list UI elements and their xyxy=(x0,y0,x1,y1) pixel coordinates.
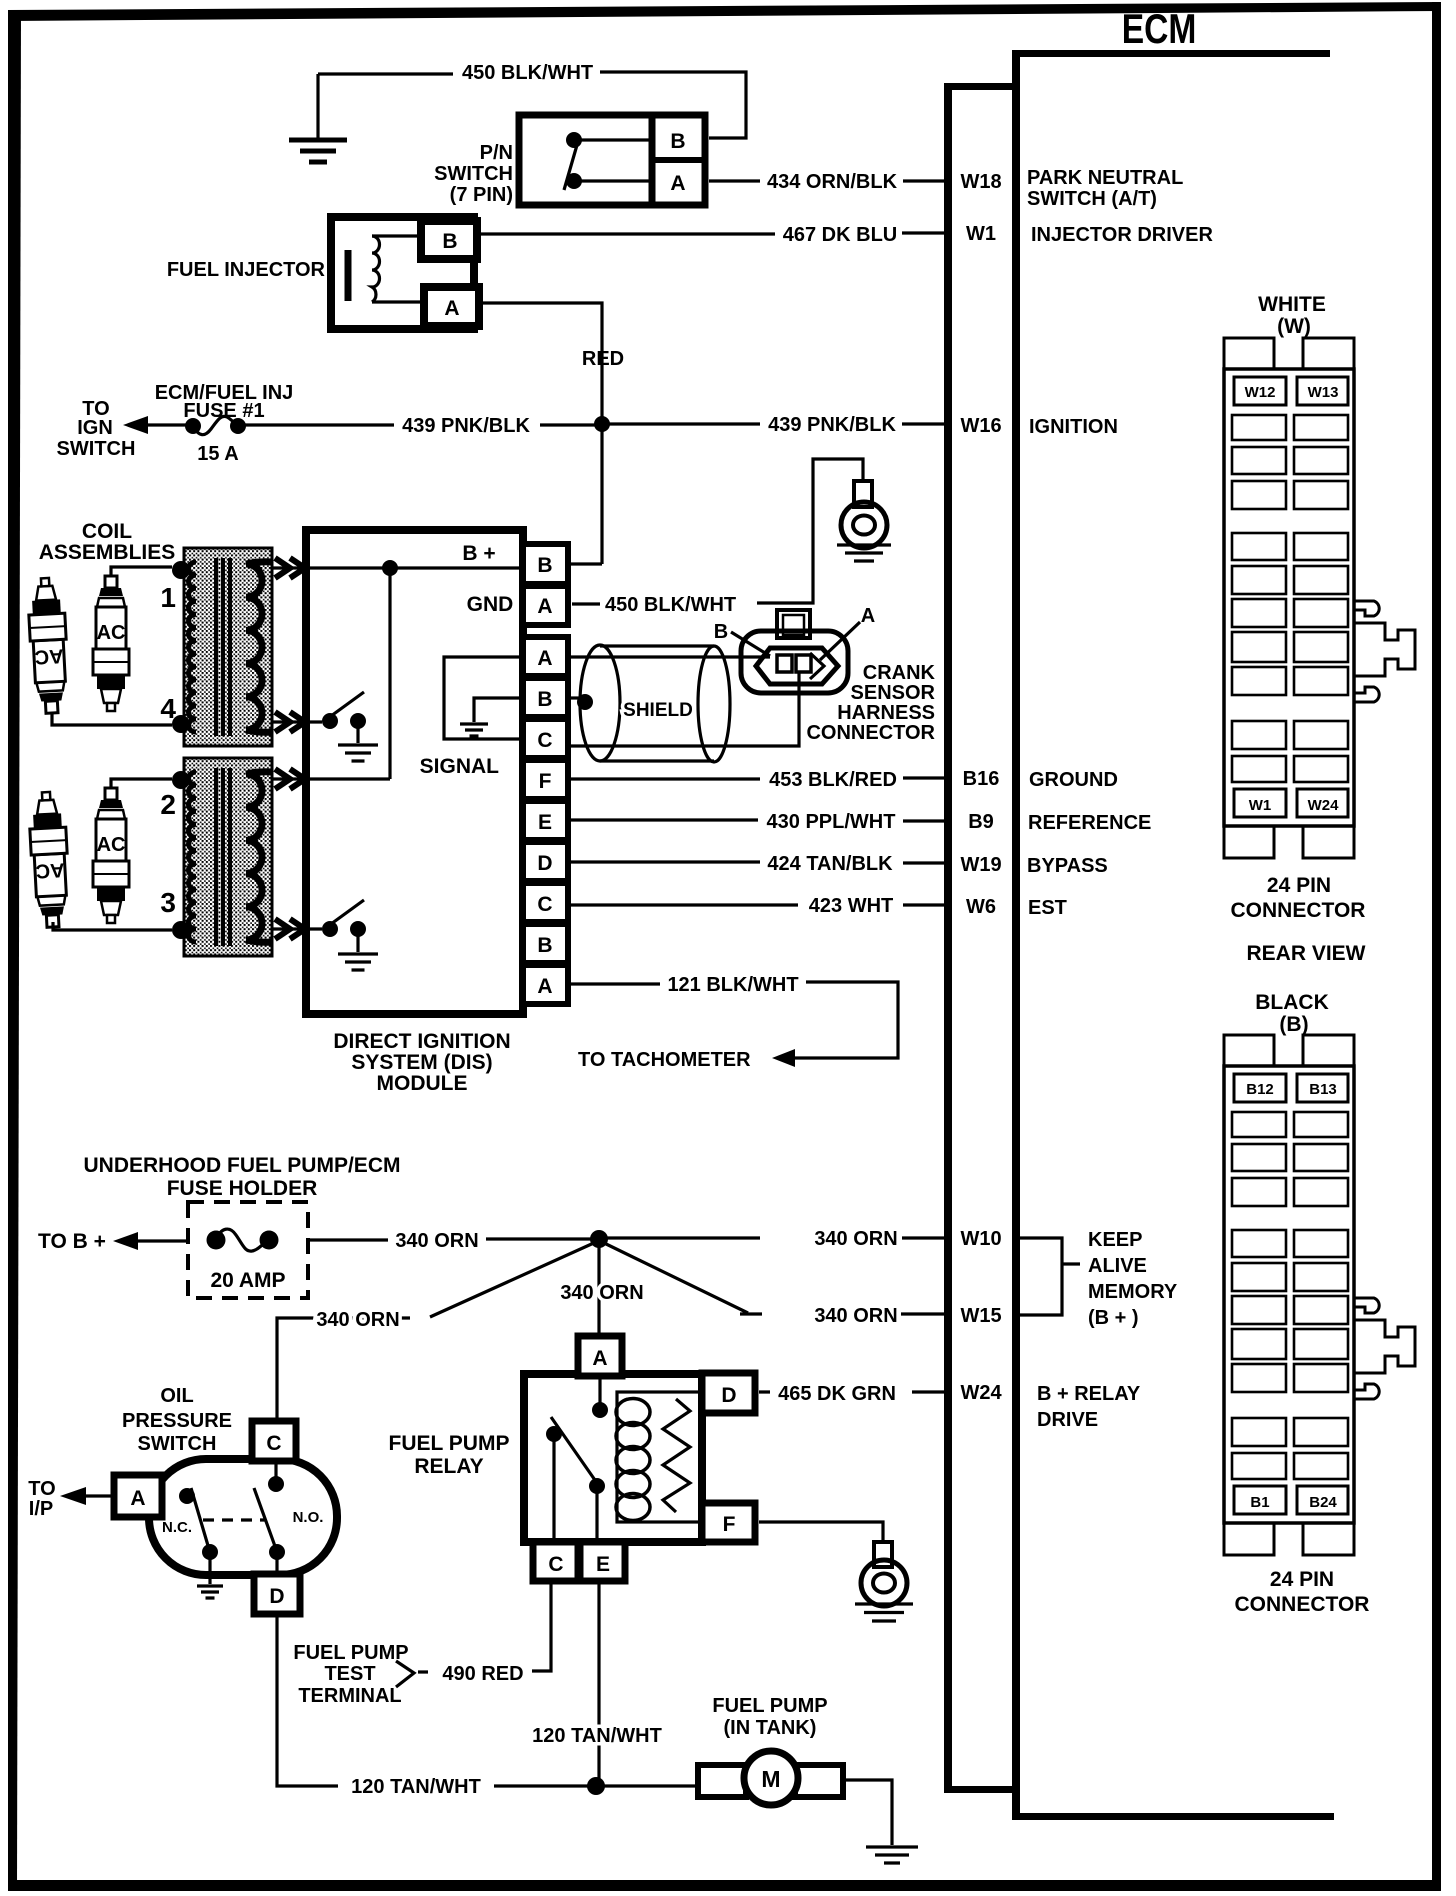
wire DIS A to crank connector xyxy=(568,655,770,658)
svg-text:24 PIN: 24 PIN xyxy=(1267,874,1331,897)
DIS pin A0 xyxy=(523,637,568,676)
wire 120 TAN/WHT from oil switch D xyxy=(277,1614,700,1798)
svg-text:340 ORN: 340 ORN xyxy=(814,1305,897,1327)
svg-text:A: A xyxy=(861,605,875,627)
DIS pin B1 xyxy=(523,678,568,717)
wire 424 TAN/BLK xyxy=(568,853,944,875)
wire plug3 to coil2 xyxy=(53,922,172,930)
svg-text:BYPASS: BYPASS xyxy=(1027,855,1108,877)
svg-text:B13: B13 xyxy=(1309,1081,1337,1098)
svg-text:(IN TANK): (IN TANK) xyxy=(724,1717,817,1739)
wire pump to ground xyxy=(843,1780,892,1845)
ECM U1 (Engine Control Module) xyxy=(1012,7,1334,1820)
svg-text:WHITE: WHITE xyxy=(1258,293,1326,316)
svg-text:1: 1 xyxy=(160,582,176,613)
svg-text:TERMINAL: TERMINAL xyxy=(298,1685,401,1707)
DIS pin E4 xyxy=(523,801,568,840)
svg-text:B16: B16 xyxy=(963,768,1000,790)
wire 450 BLK/WHT to crank ground xyxy=(572,459,863,616)
svg-text:(B): (B) xyxy=(1279,1013,1308,1036)
svg-text:RELAY: RELAY xyxy=(414,1455,483,1478)
svg-text:W18: W18 xyxy=(960,171,1001,193)
DIS pin D5 xyxy=(523,842,568,881)
svg-text:W1: W1 xyxy=(1249,797,1272,814)
switch DIS coil1 driver xyxy=(322,692,378,761)
svg-text:C: C xyxy=(537,729,552,752)
svg-text:B12: B12 xyxy=(1246,1081,1274,1098)
svg-text:340 ORN: 340 ORN xyxy=(814,1228,897,1250)
svg-text:A: A xyxy=(670,172,685,195)
wire coil1 primary to DIS switch (arrows) xyxy=(272,712,322,732)
svg-text:B: B xyxy=(442,230,457,253)
wire RED xyxy=(482,303,624,421)
oil pressure switch S2 xyxy=(114,1385,337,1614)
wire 340 ORN main feed xyxy=(308,1228,944,1252)
svg-text:F: F xyxy=(539,770,552,793)
svg-text:340 ORN: 340 ORN xyxy=(560,1282,643,1304)
svg-text:ASSEMBLIES: ASSEMBLIES xyxy=(39,541,176,564)
svg-text:D: D xyxy=(537,852,552,875)
svg-text:B: B xyxy=(537,688,552,711)
svg-text:CONNECTOR: CONNECTOR xyxy=(806,722,935,744)
svg-text:B24: B24 xyxy=(1309,1494,1337,1511)
svg-text:DIRECT IGNITION: DIRECT IGNITION xyxy=(333,1030,510,1053)
svg-text:A: A xyxy=(537,595,552,618)
svg-text:PARK NEUTRAL: PARK NEUTRAL xyxy=(1027,167,1183,189)
DIS module U2 DIRECT IGNITION SYSTEM xyxy=(306,530,523,1095)
svg-text:CRANK: CRANK xyxy=(863,662,936,684)
wire 423 WHT xyxy=(568,895,944,917)
svg-text:MEMORY: MEMORY xyxy=(1088,1281,1178,1303)
fuel pump M1 (IN TANK) xyxy=(698,1695,843,1805)
fuse F1 ECM/FUEL INJ FUSE #1 15A xyxy=(155,382,294,465)
wire 453 BLK/RED xyxy=(568,769,944,791)
svg-text:439 PNK/BLK: 439 PNK/BLK xyxy=(768,414,896,436)
svg-text:W10: W10 xyxy=(960,1228,1001,1250)
fuel pump relay K1 xyxy=(389,1336,755,1581)
label TO I/P xyxy=(28,1478,114,1520)
svg-text:340 ORN: 340 ORN xyxy=(316,1309,399,1331)
svg-text:423 WHT: 423 WHT xyxy=(809,895,893,917)
svg-text:N.O.: N.O. xyxy=(293,1509,324,1526)
svg-text:2: 2 xyxy=(160,789,176,820)
wire plug1 to coil1 xyxy=(52,712,172,725)
svg-text:465 DK GRN: 465 DK GRN xyxy=(778,1383,896,1405)
label B+ RELAY DRIVE xyxy=(1037,1383,1141,1431)
wire DIS C to crank connector xyxy=(568,671,799,746)
label KEEP ALIVE MEMORY (B+) xyxy=(1088,1229,1178,1329)
svg-text:FUSE HOLDER: FUSE HOLDER xyxy=(167,1177,318,1200)
svg-text:ECM: ECM xyxy=(1122,7,1197,53)
svg-text:REFERENCE: REFERENCE xyxy=(1028,812,1151,834)
svg-text:IGNITION: IGNITION xyxy=(1029,416,1118,438)
svg-text:D: D xyxy=(721,1384,736,1407)
svg-text:SENSOR: SENSOR xyxy=(851,682,936,704)
svg-text:HARNESS: HARNESS xyxy=(837,702,935,724)
svg-text:UNDERHOOD FUEL PUMP/ECM: UNDERHOOD FUEL PUMP/ECM xyxy=(84,1154,401,1177)
svg-text:120 TAN/WHT: 120 TAN/WHT xyxy=(532,1725,662,1747)
svg-text:467 DK BLU: 467 DK BLU xyxy=(783,224,897,246)
svg-text:120 TAN/WHT: 120 TAN/WHT xyxy=(351,1776,481,1798)
svg-text:ALIVE: ALIVE xyxy=(1088,1255,1147,1277)
svg-text:D: D xyxy=(269,1585,284,1608)
wire 450 BLK/WHT to P/N switch xyxy=(318,62,746,138)
wire 434 ORN/BLK xyxy=(709,171,944,193)
svg-text:SYSTEM (DIS): SYSTEM (DIS) xyxy=(351,1051,492,1074)
svg-text:W16: W16 xyxy=(960,415,1001,437)
coil assembly T1 (cylinders 1,4) xyxy=(160,548,272,746)
svg-text:TO TACHOMETER: TO TACHOMETER xyxy=(578,1049,751,1071)
switch DIS coil2 driver xyxy=(322,900,378,970)
svg-text:A: A xyxy=(130,1487,145,1510)
svg-text:B: B xyxy=(537,554,552,577)
test terminal FUEL PUMP TEST TERMINAL xyxy=(293,1642,414,1707)
svg-text:N.C.: N.C. xyxy=(162,1519,192,1536)
wire 430 PPL/WHT xyxy=(568,811,944,833)
svg-text:SWITCH (A/T): SWITCH (A/T) xyxy=(1027,188,1157,210)
wire 121 BLK/WHT to tachometer xyxy=(568,974,898,1071)
svg-text:CONNECTOR: CONNECTOR xyxy=(1231,899,1366,922)
svg-text:W6: W6 xyxy=(966,896,996,918)
spark plug P1 xyxy=(27,577,70,714)
svg-text:B9: B9 xyxy=(968,811,994,833)
label TO B+ xyxy=(38,1230,188,1253)
svg-text:A: A xyxy=(592,1347,607,1370)
svg-text:B: B xyxy=(670,130,685,153)
shield around crank sensor wires xyxy=(580,645,730,762)
svg-text:PRESSURE: PRESSURE xyxy=(122,1410,232,1432)
wire 120 TAN/WHT from relay E xyxy=(532,1581,662,1782)
spark plug P2 xyxy=(93,576,129,711)
svg-text:(B + ): (B + ) xyxy=(1088,1307,1139,1329)
svg-text:OIL: OIL xyxy=(160,1385,193,1407)
svg-text:MODULE: MODULE xyxy=(377,1072,468,1095)
svg-text:P/N: P/N xyxy=(480,142,513,164)
svg-text:450 BLK/WHT: 450 BLK/WHT xyxy=(605,594,736,616)
svg-text:W19: W19 xyxy=(960,854,1001,876)
bracket keep-alive xyxy=(1020,1238,1080,1315)
svg-text:W12: W12 xyxy=(1245,384,1276,401)
svg-text:C: C xyxy=(548,1553,563,1576)
svg-text:15 A: 15 A xyxy=(197,443,239,465)
switch S1 P/N SWITCH (7 PIN) xyxy=(434,115,705,206)
wire 467 DK BLU xyxy=(481,224,944,246)
svg-text:SHIELD: SHIELD xyxy=(623,700,693,721)
wire 490 RED from relay C xyxy=(418,1581,551,1685)
svg-text:W13: W13 xyxy=(1308,384,1339,401)
svg-text:B + RELAY: B + RELAY xyxy=(1037,1383,1141,1405)
svg-text:A: A xyxy=(537,975,552,998)
svg-text:C: C xyxy=(266,1432,281,1455)
wire coil2 secondary to DIS feed (arrows) xyxy=(272,769,309,789)
svg-text:SIGNAL: SIGNAL xyxy=(420,755,500,778)
svg-text:3: 3 xyxy=(160,887,176,918)
DIS pin C6 xyxy=(523,883,568,922)
svg-text:W24: W24 xyxy=(1308,797,1340,814)
svg-text:(7 PIN): (7 PIN) xyxy=(450,184,513,206)
wire plug2 to coil1 xyxy=(111,567,172,576)
svg-text:SWITCH: SWITCH xyxy=(57,438,136,460)
wire 340 ORN to oil pressure switch C (diagonal) xyxy=(277,1242,596,1421)
svg-text:EST: EST xyxy=(1028,897,1067,919)
label PARK NEUTRAL SWITCH (A/T) xyxy=(1027,167,1183,210)
spark plug P4 xyxy=(93,788,129,923)
wire coil2 primary to DIS switch (arrows) xyxy=(272,919,322,939)
wire DIS B+ internal xyxy=(309,421,602,779)
wire 439 PNK/BLK xyxy=(123,414,944,437)
label TO IGN SWITCH xyxy=(57,398,136,460)
svg-text:M: M xyxy=(761,1766,780,1792)
fuel injector L1 xyxy=(167,217,479,329)
ground G2 ring terminal xyxy=(837,481,891,561)
svg-text:F: F xyxy=(723,1513,736,1536)
svg-text:W1: W1 xyxy=(966,223,996,245)
svg-text:A: A xyxy=(444,297,459,320)
ground G1 top-left xyxy=(289,74,347,162)
connector 24-pin WHITE (W) rear view xyxy=(1224,293,1415,922)
wire coil1 secondary to DIS B+ (arrows) xyxy=(272,558,309,578)
wire relay F to ground xyxy=(759,1522,907,1606)
svg-text:SWITCH: SWITCH xyxy=(434,163,513,185)
svg-text:B: B xyxy=(714,621,728,643)
svg-text:INJECTOR DRIVER: INJECTOR DRIVER xyxy=(1031,224,1213,246)
svg-text:FUEL PUMP: FUEL PUMP xyxy=(712,1695,827,1717)
svg-text:FUEL PUMP: FUEL PUMP xyxy=(389,1432,510,1455)
wire 340 ORN to relay A xyxy=(560,1243,643,1336)
svg-text:SWITCH: SWITCH xyxy=(138,1433,217,1455)
svg-text:450 BLK/WHT: 450 BLK/WHT xyxy=(462,62,593,84)
svg-text:COIL: COIL xyxy=(82,520,132,543)
crank sensor harness connector J2 xyxy=(714,605,936,744)
svg-text:I/P: I/P xyxy=(29,1498,53,1520)
svg-text:439 PNK/BLK: 439 PNK/BLK xyxy=(402,415,530,437)
svg-text:340 ORN: 340 ORN xyxy=(395,1230,478,1252)
svg-text:20 AMP: 20 AMP xyxy=(210,1269,285,1292)
svg-text:434 ORN/BLK: 434 ORN/BLK xyxy=(767,171,898,193)
svg-text:B: B xyxy=(537,934,552,957)
relay coil xyxy=(616,1399,690,1521)
wire plug4 to coil2 xyxy=(111,779,172,788)
DIS pin F3 xyxy=(523,760,568,799)
svg-text:IGN: IGN xyxy=(77,417,113,439)
DIS pin A8 xyxy=(523,965,568,1004)
svg-text:FUEL INJECTOR: FUEL INJECTOR xyxy=(167,259,326,281)
coil assembly T2 (cylinders 2,3) xyxy=(160,758,272,956)
svg-text:GROUND: GROUND xyxy=(1029,769,1118,791)
svg-text:TO: TO xyxy=(28,1478,55,1500)
wire DIS signal shield loop xyxy=(444,657,523,739)
svg-text:BLACK: BLACK xyxy=(1255,991,1329,1014)
svg-text:E: E xyxy=(596,1553,610,1576)
DIS pin B7 xyxy=(523,924,568,963)
svg-text:W15: W15 xyxy=(960,1305,1001,1327)
svg-text:C: C xyxy=(537,893,552,916)
svg-text:B +: B + xyxy=(462,542,495,565)
svg-text:(W): (W) xyxy=(1277,315,1311,338)
svg-text:B1: B1 xyxy=(1250,1494,1269,1511)
svg-text:A: A xyxy=(537,647,552,670)
DIS pin C2 xyxy=(523,719,568,758)
wire 340 ORN to W15 (diagonal) xyxy=(602,1242,944,1327)
svg-text:RED: RED xyxy=(582,348,624,370)
svg-text:24 PIN: 24 PIN xyxy=(1270,1568,1334,1591)
svg-text:453 BLK/RED: 453 BLK/RED xyxy=(769,769,897,791)
svg-text:E: E xyxy=(538,811,552,834)
svg-text:424 TAN/BLK: 424 TAN/BLK xyxy=(767,853,893,875)
svg-text:REAR VIEW: REAR VIEW xyxy=(1246,942,1365,965)
connector 24-pin BLACK (B) rear view xyxy=(1224,991,1415,1616)
svg-text:4: 4 xyxy=(160,693,176,724)
svg-text:TO B +: TO B + xyxy=(38,1230,106,1253)
fuse holder F2 UNDERHOOD FUEL PUMP/ECM xyxy=(84,1154,401,1298)
svg-text:W24: W24 xyxy=(960,1382,1002,1404)
svg-text:FUEL PUMP: FUEL PUMP xyxy=(293,1642,408,1664)
svg-text:TEST: TEST xyxy=(324,1663,375,1685)
connector bus column xyxy=(944,83,1014,1793)
wire DIS B to shield xyxy=(568,694,593,710)
spark plug P3 xyxy=(28,791,71,928)
svg-text:CONNECTOR: CONNECTOR xyxy=(1235,1593,1370,1616)
svg-text:121 BLK/WHT: 121 BLK/WHT xyxy=(667,974,798,996)
DIS pin B (B+) xyxy=(523,544,568,584)
label COIL ASSEMBLIES xyxy=(39,520,176,564)
DIS pin A (GND) xyxy=(523,586,568,625)
svg-text:430 PPL/WHT: 430 PPL/WHT xyxy=(767,811,896,833)
svg-text:490 RED: 490 RED xyxy=(442,1663,523,1685)
svg-text:KEEP: KEEP xyxy=(1088,1229,1142,1251)
wire 465 DK GRN xyxy=(759,1383,944,1405)
svg-text:GND: GND xyxy=(467,593,514,616)
svg-text:DRIVE: DRIVE xyxy=(1037,1409,1098,1431)
